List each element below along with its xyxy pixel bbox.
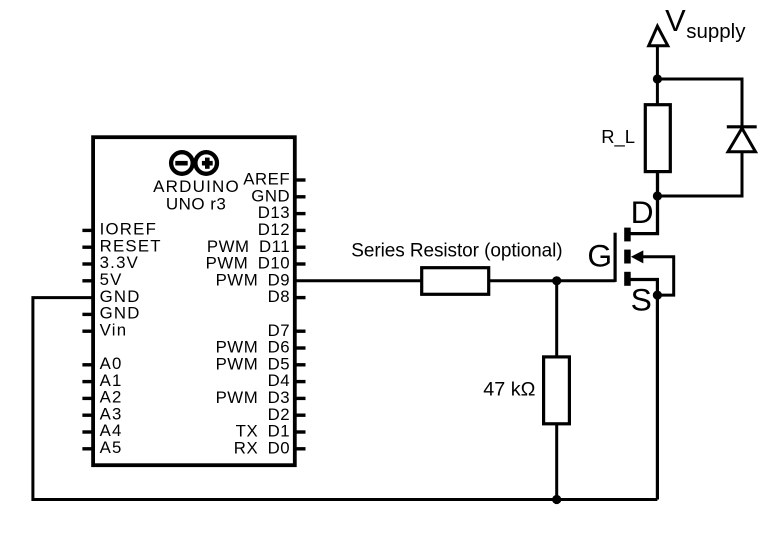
svg-text:supply: supply (686, 20, 746, 43)
wire supply node to diode cathode (657, 79, 742, 127)
node junction ground rail (552, 495, 561, 504)
wire drain lead (630, 172, 658, 234)
svg-text:A5: A5 (100, 438, 123, 457)
node supply junction (653, 74, 662, 83)
Arduino UNO r3 body U1 (93, 137, 295, 465)
power Vsupply arrow (649, 26, 668, 46)
pin GND stub (82, 313, 93, 316)
wire body to source (643, 257, 674, 295)
node source junction (653, 291, 662, 300)
svg-text:Vin: Vin (100, 320, 128, 339)
svg-text:R_L: R_L (601, 126, 635, 148)
node junction gate branch (552, 276, 561, 285)
wire D9 to gate (295, 279, 616, 282)
svg-text:V: V (665, 3, 686, 38)
pin 5V stub (82, 279, 93, 282)
pin A2 stub (82, 397, 93, 400)
pin D7 stub (295, 330, 306, 333)
pin D11 stub (295, 245, 306, 248)
svg-text:S: S (631, 281, 652, 317)
pin D4 stub (295, 380, 306, 383)
svg-text:ARDUINO: ARDUINO (153, 177, 240, 196)
svg-text:47 kΩ: 47 kΩ (483, 379, 535, 401)
svg-text:D: D (631, 194, 654, 230)
pin AREF stub (295, 178, 306, 181)
pin Vin stub (82, 330, 93, 333)
wire GND return loop (33, 298, 658, 500)
transistor Q1 gate line (613, 233, 616, 282)
svg-text:Series Resistor (optional): Series Resistor (optional) (351, 240, 562, 261)
node drain-diode junction (653, 191, 662, 200)
pin D3 stub (295, 397, 306, 400)
svg-text:RX D0: RX D0 (234, 438, 290, 457)
wire gate node to 47k resistor (555, 281, 558, 357)
Arduino logo (171, 152, 217, 174)
wire source lead (630, 280, 657, 500)
pin D12 stub (295, 229, 306, 232)
resistor R2 47k pulldown (544, 357, 570, 424)
pin A4 stub (82, 430, 93, 433)
resistor R1 series (optional) (422, 268, 489, 295)
pin A0 stub (82, 363, 93, 366)
diode D1 cathode bar (727, 125, 757, 128)
pin A5 stub (82, 447, 93, 450)
resistor R_L load (645, 105, 670, 172)
transistor Q1 channel bars (624, 228, 631, 286)
pin A3 stub (82, 414, 93, 417)
svg-text:UNO r3: UNO r3 (166, 194, 226, 213)
pin D6 stub (295, 346, 306, 349)
pin D1 stub (295, 430, 306, 433)
pin A1 stub (82, 380, 93, 383)
svg-text:D8: D8 (268, 287, 291, 306)
pin D10 stub (295, 262, 306, 265)
pin D5 stub (295, 363, 306, 366)
pin GND stub right (295, 195, 306, 198)
pin D0 stub (295, 447, 306, 450)
transistor Q1 body arrow (631, 250, 643, 263)
pin D13 stub (295, 212, 306, 215)
pin 3.3V stub (82, 262, 93, 265)
svg-text:G: G (587, 238, 612, 274)
pin D2 stub (295, 414, 306, 417)
diode D1 triangle (728, 128, 756, 152)
pin IOREF stub (82, 229, 93, 232)
wire R_L to supply arrow (656, 46, 659, 105)
wire diode anode connection (657, 152, 742, 196)
pin D8 stub (295, 296, 306, 299)
pin RESET stub (82, 245, 93, 248)
wire 47k resistor to ground rail (555, 424, 558, 500)
